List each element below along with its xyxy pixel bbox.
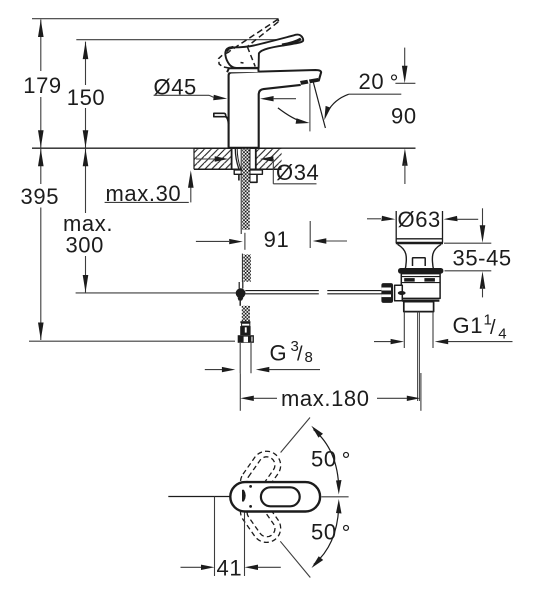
drain tail collar [404, 302, 434, 312]
lever raised rear blob (dashed) [219, 52, 244, 68]
drain overflow slot right [424, 278, 435, 282]
deck reference line [32, 147, 416, 149]
50 deg lower leader line [280, 541, 310, 577]
svg-text:50°: 50° [311, 520, 351, 546]
drain overflow slot left [404, 278, 415, 282]
drain body [401, 274, 440, 299]
dimension G1 1/4 left arrow [374, 341, 391, 343]
spout underside [259, 85, 301, 148]
max.180 right arrow [407, 396, 421, 401]
lever rear corner (thick) [226, 47, 233, 51]
lever raised (dashed) top edge [229, 19, 278, 51]
35-45 lower arrow (up) [480, 271, 486, 289]
drain stem peg [413, 258, 426, 266]
lever raised tip join [277, 19, 280, 21]
lever handle (solid, down position) [225, 35, 303, 68]
hose lower segment (above tee) [243, 255, 251, 282]
dimension 91 right arrow [313, 238, 327, 243]
35-45 upper arrow (down) [482, 208, 484, 227]
dimension G1 1/4 right arrow [435, 339, 449, 344]
lever tip thick underside [282, 39, 301, 45]
top view: spout slot (inner oval) [261, 487, 300, 506]
41 right arrow [245, 565, 259, 570]
dimension 150 arrow up [83, 42, 89, 60]
countertop bottom edge [194, 168, 282, 170]
dimension 90 top tick [395, 82, 415, 84]
supply hose below tee (braided) [242, 306, 250, 322]
dimension max.180 right extension [420, 373, 422, 411]
top view: center reference line right [322, 496, 349, 498]
faucet hole left edge [231, 148, 233, 169]
svg-text:90: 90 [391, 104, 417, 129]
dimension 395 arrow up [38, 149, 44, 167]
Ø34 leader underline [273, 183, 316, 185]
top view: pivot dots [249, 485, 252, 488]
drain flange bottom (thick) [396, 242, 443, 245]
drain neck (tapering) [398, 244, 442, 271]
drain flange top line [396, 238, 442, 240]
svg-text:41: 41 [217, 555, 243, 580]
tee lower stub [238, 298, 244, 301]
tee junction dot [236, 288, 246, 298]
pop-up rod (horizontal, to drain) [245, 291, 318, 294]
extension line (150 level) [76, 39, 302, 41]
Ø34 leader vertical [272, 159, 274, 184]
dimension 91 right tick [309, 221, 311, 248]
faucet base bottom [229, 146, 259, 148]
svg-text:G1: G1 [453, 313, 484, 338]
dimension 35-45 bottom line [445, 270, 492, 272]
drain body line under slots [401, 282, 440, 284]
lever raised (dashed) bottom edge [247, 22, 278, 47]
dimension 150 line [85, 42, 87, 148]
Ø45 arrow right (to body left edge) [209, 95, 214, 97]
hose end black section [240, 326, 250, 335]
drain thread lines (G1 1/4) [404, 312, 433, 348]
mounting nut [239, 174, 257, 182]
Ø45 leader underline [154, 94, 209, 96]
line from tee down to lower hose [239, 300, 241, 306]
svg-text:300: 300 [65, 232, 104, 257]
faucet hole right edge [255, 148, 257, 169]
20 deg arc arrow right (from label) [328, 94, 349, 112]
svg-text:4: 4 [498, 325, 507, 342]
dimension G3/8 left arrow [205, 369, 222, 371]
shank right boundary line [249, 149, 251, 182]
svg-text:/: / [297, 344, 303, 366]
svg-text:20°: 20° [359, 69, 400, 95]
dimension 90 lower arrow (up) [402, 148, 408, 166]
20 deg label underline [349, 93, 402, 95]
20 deg arc arrow left [278, 108, 304, 122]
top view: faucet body (stadium) [230, 482, 320, 511]
dimension 179 arrow up [38, 20, 44, 38]
50 deg lower arc arrowhead bottom [312, 556, 324, 568]
top view: swivel range lower dashed handle [235, 492, 286, 548]
extension line to tee (max.300 level) [76, 292, 236, 294]
dimension max.300 arrow down [83, 275, 89, 293]
dimension 395 arrow down [38, 323, 44, 341]
shank left boundary line [240, 149, 242, 234]
G3/8 thread stub lines [240, 343, 251, 373]
50 deg lower arc arrowhead top [336, 499, 342, 514]
dimension 179 arrow down [38, 130, 44, 148]
dimension 91 left arrow [196, 240, 229, 242]
dimension G3/8 right arrow [256, 367, 269, 372]
mounting washer under deck [234, 170, 262, 174]
G3/8 connector nut [238, 335, 254, 343]
svg-text:8: 8 [305, 349, 314, 366]
svg-text:50°: 50° [311, 447, 351, 473]
hose collar black band [240, 321, 250, 323]
extension line top (179 level) [32, 18, 279, 20]
water stream vertical reference line [309, 84, 311, 132]
dimension 35-45 top line [444, 242, 491, 244]
bottom reference line (395 end) [29, 340, 235, 342]
dimension 41 left extension [214, 497, 216, 577]
Ø45 arrow left (to body right edge) [260, 96, 274, 101]
pivot ball (black oval) [398, 291, 406, 295]
drain seal flange (black) [398, 268, 443, 274]
svg-text:395: 395 [21, 184, 60, 209]
dimension Ø63 right arrow [444, 216, 458, 221]
drain center pipe lines [418, 312, 420, 401]
countertop top edge [194, 147, 282, 149]
dimension max.300 arrow up [83, 149, 89, 167]
knob connector [395, 285, 403, 301]
hose neck into tee [239, 282, 243, 289]
svg-text:Ø63: Ø63 [398, 207, 441, 232]
countertop hatched right block [256, 148, 282, 169]
countertop left end cap [193, 148, 195, 169]
50 deg lower arc [314, 505, 339, 565]
max.30 arrow up to deck bottom [190, 186, 192, 202]
svg-text:/: / [490, 317, 496, 339]
max.180 left arrow [240, 396, 254, 401]
top view: pull rod [168, 496, 231, 498]
top view: pull rod hole mark [242, 490, 246, 502]
drain body bottom band [402, 300, 439, 302]
faucet body outline [229, 70, 322, 148]
dimension 91 left tick [244, 233, 246, 250]
dimension 41 right extension [244, 513, 246, 577]
dimension Ø63 left arrow [367, 218, 381, 220]
cartridge cap under lever [227, 68, 259, 72]
dimension 395 line [40, 149, 42, 340]
deck arrow right (Ø34) [260, 156, 274, 161]
adjusting knob (knurled) [381, 283, 393, 303]
svg-text:Ø34: Ø34 [276, 160, 319, 185]
lever raised body edge (dashed diagonal) [247, 47, 255, 67]
svg-text:max.180: max.180 [281, 386, 370, 411]
svg-text:150: 150 [67, 85, 106, 110]
threaded shank (braided) upper segment [242, 149, 250, 230]
50 deg upper arc [314, 430, 339, 490]
aerator slit [308, 79, 309, 84]
svg-text:91: 91 [264, 227, 290, 252]
dimension 150 arrow down [83, 130, 89, 148]
50 deg upper leader line [281, 418, 310, 453]
water stream slanted line (20 deg) [313, 83, 325, 129]
50 deg upper arc arrowhead top [311, 426, 323, 438]
pull rod knob (left of body) [214, 113, 226, 116]
41 left arrow [181, 566, 203, 568]
max.30 underline [105, 201, 189, 203]
top view: swivel range upper dashed handle [235, 446, 286, 502]
svg-text:179: 179 [23, 73, 62, 98]
drain: Ø63 extension lines / top cup sides [396, 211, 442, 243]
dimension max.300 line [85, 149, 87, 293]
pull rod through hole [235, 149, 239, 169]
50 deg upper arc arrowhead bottom [336, 480, 342, 495]
deck arrow left (Ø34) [196, 158, 216, 160]
hose collar white band [242, 323, 250, 326]
pop-up rod right part after break [327, 291, 381, 294]
drain body upper line [401, 276, 440, 278]
aerator (black slanted band) [300, 78, 319, 85]
dimension 179 line [40, 20, 42, 148]
svg-text:35-45: 35-45 [453, 246, 512, 271]
svg-text:G: G [270, 341, 288, 366]
countertop hatched left block [194, 148, 232, 169]
dimension 90 upper arrow (down) [404, 48, 406, 68]
dimension max.180 left extension [239, 373, 241, 411]
